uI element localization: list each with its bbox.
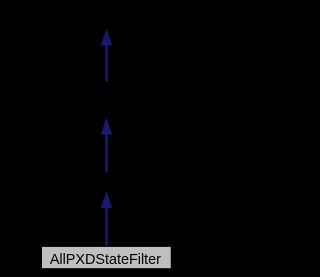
- inheritance arrow 1 (top): [102, 30, 112, 81]
- class node box AllPXDStateFilter: [42, 246, 172, 268]
- svg-text:AllPXDStateFilter: AllPXDStateFilter: [50, 252, 161, 268]
- inheritance arrow 3 (bottom): [102, 193, 112, 246]
- inheritance diagram canvas: [0, 0, 213, 277]
- inheritance arrow 2 (middle): [102, 119, 112, 171]
